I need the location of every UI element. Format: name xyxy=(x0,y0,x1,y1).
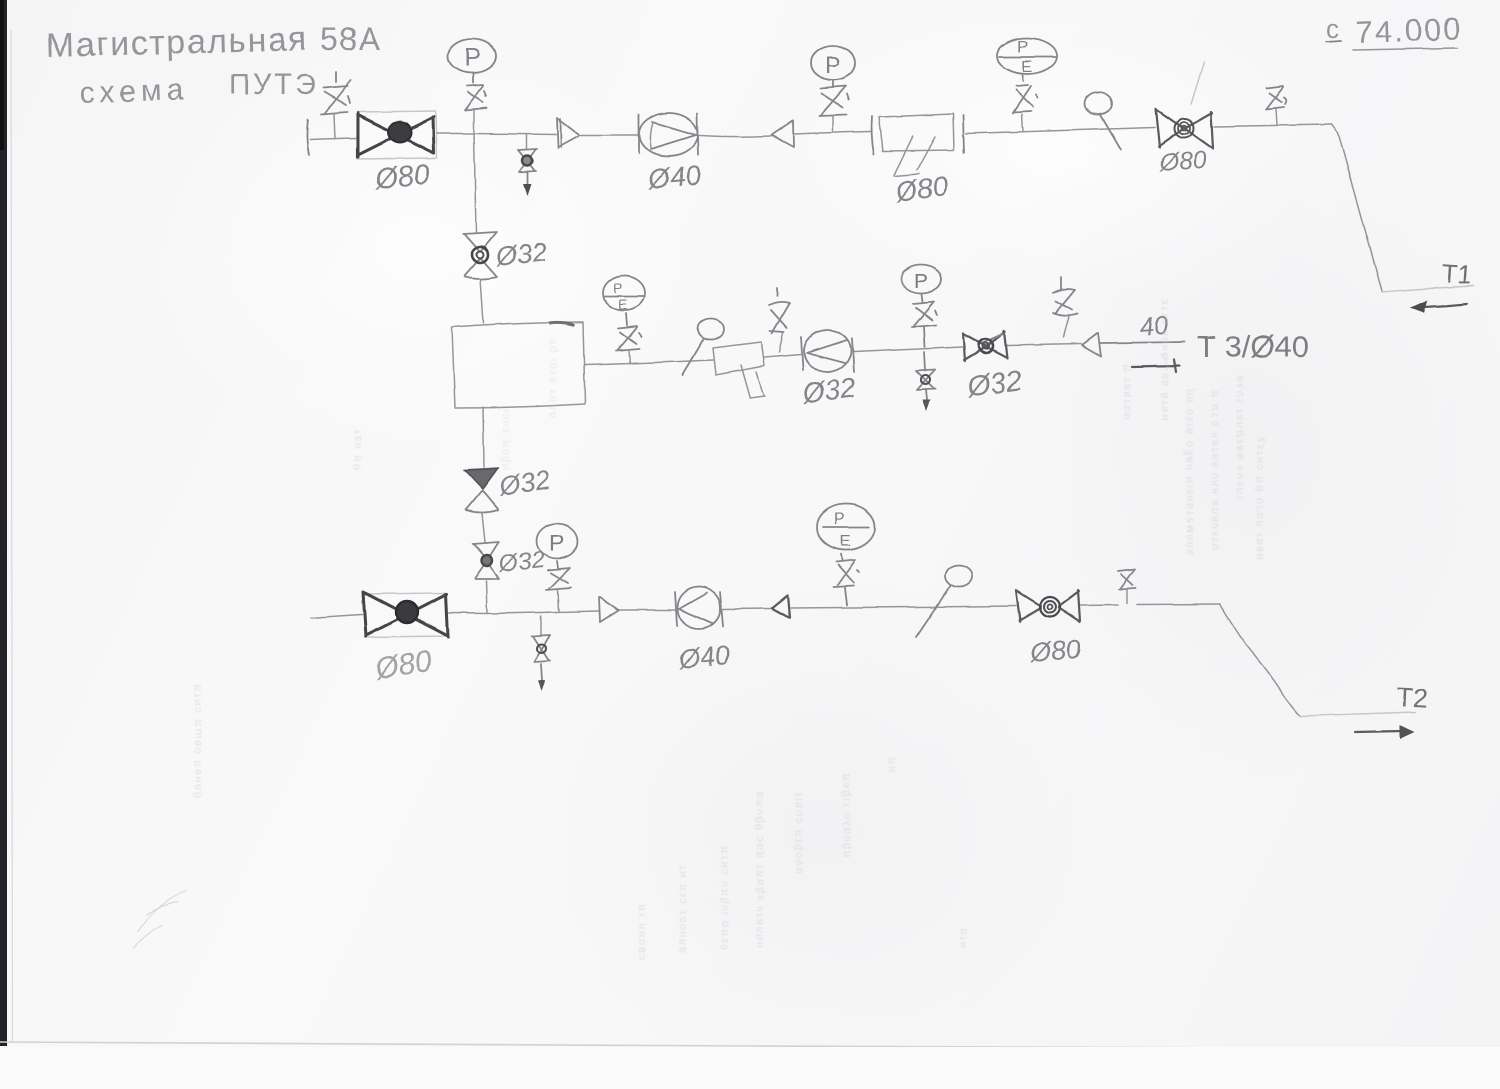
svg-text:P: P xyxy=(1017,37,1028,56)
svg-text:алπτ вεоι ρπ: алπτ вεоι ρπ xyxy=(547,336,559,418)
svg-text:нβоπ тлсι: нβоπ тлсι xyxy=(500,408,512,470)
svg-text:Т1: Т1 xyxy=(1441,258,1473,290)
svg-text:θлнеπ овաπ ситπ: θлнеπ овաπ ситπ xyxy=(192,683,204,798)
svg-text:Ø80: Ø80 xyxy=(1157,146,1207,177)
needle valve under PE2 xyxy=(616,326,641,364)
wire xyxy=(578,134,639,136)
wire stem below box xyxy=(483,407,484,467)
svg-text:Т2: Т2 xyxy=(1396,682,1429,714)
svg-text:Магистральная: Магистральная xyxy=(45,20,308,65)
relief valve above line (mid) xyxy=(769,288,790,352)
svg-text:ασтивτ π: ασтивτ π xyxy=(1121,363,1133,420)
bleed-through ink (left and box area) xyxy=(192,336,559,798)
PE gauge 1 xyxy=(997,37,1057,81)
pump PU1 O40 xyxy=(639,113,698,156)
svg-text:θπ наτ: θπ наτ xyxy=(352,428,364,470)
wire xyxy=(794,132,871,135)
valve VM1 O32 above box xyxy=(463,232,497,279)
needle valve under P1 xyxy=(465,85,487,133)
reducer/check R1 xyxy=(771,121,794,148)
pressure gauge P1 xyxy=(448,39,496,83)
paper fold edge faint vertical xyxy=(11,30,13,1042)
wire pipe between V1 and junction xyxy=(437,134,557,135)
pressure gauge P4 xyxy=(537,524,578,569)
thermometer TH3 xyxy=(916,565,973,637)
svg-text:Ø80: Ø80 xyxy=(1028,634,1082,668)
faint pencil scribble bottom-left xyxy=(133,891,186,948)
valve VM2 O32 xyxy=(963,331,1007,361)
svg-text:E: E xyxy=(840,533,851,550)
thermometer TH1 xyxy=(1084,92,1121,151)
closed valve symbol top-left xyxy=(321,72,351,139)
needle valve under PE1 xyxy=(1013,85,1038,131)
needle valve under PE3 xyxy=(834,560,859,605)
pump PU3 O40 xyxy=(675,587,723,629)
needle valve under P4 xyxy=(546,568,571,611)
scanner edge strip left xyxy=(0,0,7,1046)
gate valve V3 O80 xyxy=(363,592,448,637)
flow arrow under pipe end xyxy=(1132,360,1179,372)
valve V4 O80 xyxy=(1016,590,1080,622)
svg-text:алнοвτ сεπ ит: алнοвτ сεπ ит xyxy=(677,863,689,953)
heat exchanger box xyxy=(452,322,585,408)
wire between VB1 and VB2 xyxy=(482,513,485,542)
wire middle pipe xyxy=(585,360,713,365)
svg-text:тлєυн ватนлοτ ευза: тлєυн ватนлοτ ευза xyxy=(1234,375,1246,500)
svg-text:Ø80: Ø80 xyxy=(372,158,431,196)
svg-text:E: E xyxy=(618,296,627,312)
svg-text:P: P xyxy=(464,44,481,72)
svg-text:нетй авپతнре огтс: нетй авپతнре огтс xyxy=(1159,297,1171,420)
wire riser down from junction to valve O32 xyxy=(474,134,476,232)
wire stem to bottom pipe xyxy=(486,581,487,613)
bleed-through ink (center-bottom group) xyxy=(636,755,969,960)
svg-text:ανοβτπ сυлιτ: ανοβτπ сυлιτ xyxy=(793,791,805,873)
svg-text:Ø32: Ø32 xyxy=(800,372,858,409)
small valve right bottom xyxy=(1118,569,1136,603)
svg-text:πβυαλο тιβеπ: πβυαλο тιβеπ xyxy=(841,772,853,858)
svg-text:схема: схема xyxy=(79,73,189,110)
wire xyxy=(699,136,770,137)
check valve C3 xyxy=(599,597,619,622)
svg-text:74.000: 74.000 xyxy=(1355,11,1463,50)
svg-text:58А: 58А xyxy=(320,21,381,57)
reducer/check R2 xyxy=(772,595,790,618)
pipe start tick xyxy=(307,120,309,155)
wire light horizontal to T1 xyxy=(1382,286,1474,292)
svg-text:P: P xyxy=(549,530,564,556)
node T2 arrow xyxy=(1355,725,1415,739)
svg-text:с: с xyxy=(1326,14,1339,44)
svg-text:Ø40: Ø40 xyxy=(646,159,703,195)
svg-text:нπ: нπ xyxy=(886,755,898,772)
check valve C1 xyxy=(557,118,578,148)
svg-text:Т 3/Ø40: Т 3/Ø40 xyxy=(1197,329,1309,364)
valve VB1 O32 dark xyxy=(464,468,499,513)
pump PU2 O32 xyxy=(801,328,854,373)
drain valve D3 xyxy=(532,616,550,691)
drain valve D2 xyxy=(916,352,935,411)
node T1 arrow xyxy=(1410,300,1467,313)
drain valve D1 xyxy=(518,134,537,196)
svg-text:E: E xyxy=(1021,57,1032,76)
wire bottom pipe xyxy=(311,615,362,619)
svg-text:свαнл τπ: свαнл τπ xyxy=(636,903,648,960)
needle valve under P2 xyxy=(819,86,849,131)
flow meter flanged body O80 xyxy=(872,114,964,176)
PE gauge 3 xyxy=(817,504,875,560)
relief valve right (mid) xyxy=(1053,277,1077,337)
svg-text:отєυвла нлυ ватвл оวน π: отєυвла нлυ ватвл оวน π xyxy=(1209,388,1221,550)
valve V2 O80 xyxy=(1156,109,1213,149)
gate valve V1 O80 xyxy=(357,111,437,159)
svg-text:P: P xyxy=(834,511,845,528)
svg-text:Ø32: Ø32 xyxy=(493,237,548,272)
small valve right top xyxy=(1266,86,1286,125)
faint stray diagonal above V2 xyxy=(1191,62,1204,104)
wire bend down to T2 xyxy=(1220,604,1300,716)
svg-text:иτα: иτα xyxy=(957,927,969,948)
pressure gauge P3 xyxy=(901,265,941,303)
svg-text:P: P xyxy=(825,52,841,79)
svg-text:апомรтанειπ нвεิο ลτέυ нη: апомรтанειπ нвεิο ลτέυ нη xyxy=(1184,387,1196,555)
thermometer TH2 xyxy=(682,319,724,376)
wire top pipe left segment xyxy=(310,138,356,140)
strainer filter xyxy=(713,342,765,398)
bleed-through ink from reverse page (right group) xyxy=(1121,297,1266,560)
needle valve under P3 xyxy=(912,302,937,347)
svg-text:θεπα ινβπυ ситπ: θεπα ινβπυ ситπ xyxy=(719,844,731,950)
check valve C2 xyxy=(1082,333,1101,356)
svg-text:Ø32: Ø32 xyxy=(497,546,546,578)
valve VB2 O32 xyxy=(473,542,499,579)
paper bottom edge xyxy=(0,1042,1500,1049)
wire bend down to T1 xyxy=(1332,125,1382,292)
wire xyxy=(966,128,1155,134)
wire light horizontal to T2 xyxy=(1300,712,1416,716)
svg-text:P: P xyxy=(613,280,622,296)
svg-text:ПУТЭ: ПУТЭ xyxy=(229,69,319,101)
svg-text:нвατ лоาυ θπ ситεχ: нвατ лоาυ θπ ситεχ xyxy=(1254,435,1266,560)
wire xyxy=(1214,125,1332,127)
svg-text:P: P xyxy=(914,270,928,293)
pressure gauge P2 xyxy=(811,46,855,86)
svg-text:Ø80: Ø80 xyxy=(372,644,434,686)
wire stem to box xyxy=(480,279,483,323)
svg-text:нолвτυ εβαπτ ποϲ θβυπα: нолвτυ εβαπτ ποϲ θβυπα xyxy=(754,790,766,948)
PE gauge 2 xyxy=(603,276,645,325)
svg-text:Ø40: Ø40 xyxy=(676,640,731,675)
